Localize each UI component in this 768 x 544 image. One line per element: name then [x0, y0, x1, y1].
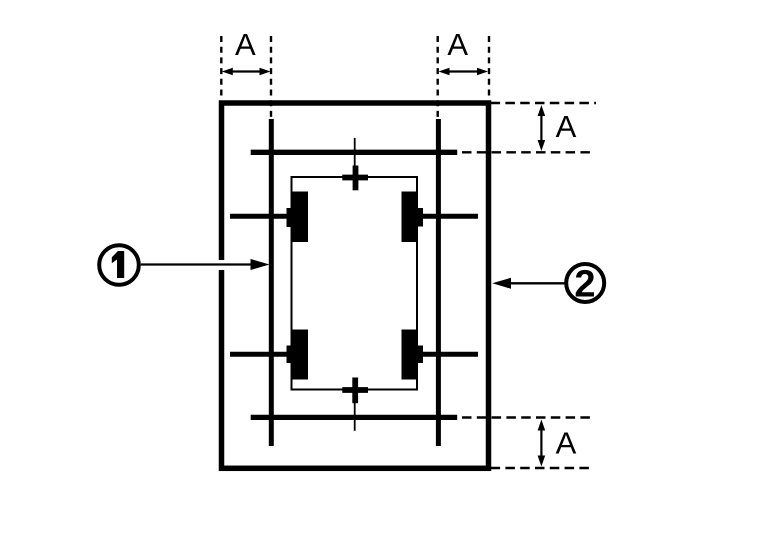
svg-text:A: A [556, 109, 577, 144]
svg-text:2: 2 [574, 264, 595, 306]
svg-text:A: A [556, 426, 577, 461]
svg-text:A: A [447, 27, 468, 62]
svg-text:A: A [235, 27, 256, 62]
